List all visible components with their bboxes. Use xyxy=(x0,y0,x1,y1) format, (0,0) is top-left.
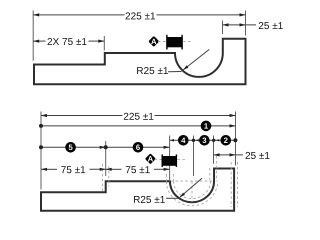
dashed verticals above arc ends xyxy=(165,174,167,181)
balloon 5 6 row y=147.3 xyxy=(41,146,170,148)
dashed tolerance arcs xyxy=(174,181,211,198)
extension line x=222.5 (25 dim) xyxy=(222,21,224,35)
dim 75 left xyxy=(41,168,57,170)
dash from diamond to gauge xyxy=(158,40,166,42)
R25 label top xyxy=(137,67,168,74)
dim 25+-1 bottom xyxy=(214,154,243,156)
balloon 4 3 2 row y=140.3 xyxy=(170,139,235,141)
dim 225+-1 bottom xyxy=(41,115,123,117)
extension line right x=245.5 xyxy=(245,11,247,36)
dim 25+-1 top xyxy=(223,24,257,26)
extension line left x=33.2 xyxy=(32,11,34,61)
dim 225+-1 line xyxy=(33,14,124,16)
R25 label bottom xyxy=(134,196,165,203)
dashed horizontal through notch xyxy=(171,180,214,182)
ext lines bottom xyxy=(40,112,42,190)
black gauge rect bottom xyxy=(162,156,177,166)
datum A diamond bottom xyxy=(145,153,156,164)
dashed center vertical in notch xyxy=(191,181,193,202)
datum A diamond top xyxy=(148,36,159,47)
dashed block zones xyxy=(209,168,211,181)
black gauge rect top xyxy=(166,37,182,47)
dim 2X 75+-1 xyxy=(33,40,45,42)
extension line x=104.3 (2x75 dim) xyxy=(103,36,105,51)
dashed step zone xyxy=(101,164,103,192)
profile outline bottom part xyxy=(41,169,234,211)
balloon 1 row xyxy=(41,125,236,127)
profile outline top part xyxy=(34,39,246,84)
dim 75 right xyxy=(106,168,122,170)
dash right of gauge xyxy=(183,40,192,42)
leader top xyxy=(183,49,209,70)
